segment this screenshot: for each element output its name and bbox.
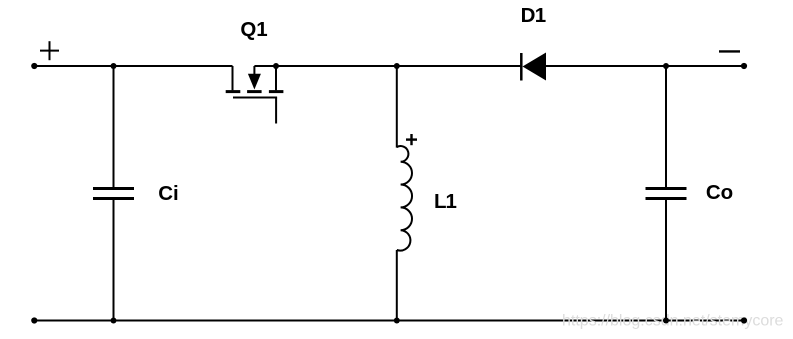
junction node top of Ci <box>111 63 117 69</box>
junction node top of Co <box>663 63 669 69</box>
junction node bottom of Co <box>663 318 669 324</box>
polarity + of L1 <box>406 134 417 145</box>
polarity - output <box>719 50 740 52</box>
polarity + input <box>40 41 59 60</box>
junction node bottom of L1 <box>394 318 400 324</box>
wire middle branch upper (top rail to L1) <box>396 66 398 148</box>
svg-text:L1: L1 <box>434 190 457 213</box>
terminal dot top-left <box>31 63 37 69</box>
wire top segment from D1 anode to - terminal <box>546 65 744 67</box>
wire left branch lower (Ci to bottom rail) <box>113 199 115 321</box>
wire bottom rail <box>34 320 744 322</box>
wire top segment from Q1 source to D1 cathode <box>254 65 520 67</box>
svg-text:Co: Co <box>706 181 733 204</box>
wire middle branch lower (L1 to bottom rail) <box>396 250 398 321</box>
wire right branch upper (top rail to Co) <box>665 66 667 188</box>
svg-text:https://blog.csdn.net/stemycor: https://blog.csdn.net/stemycore <box>562 313 784 330</box>
svg-text:Q1: Q1 <box>240 18 267 41</box>
junction node bottom of Ci <box>111 318 117 324</box>
terminal dot bottom-left <box>31 317 37 323</box>
wire top segment from + terminal to Q1 drain <box>34 65 232 67</box>
wire right branch lower (Co to bottom rail) <box>665 199 667 321</box>
junction node top of L1 <box>394 63 400 69</box>
diode D1 <box>521 53 546 81</box>
svg-text:Ci: Ci <box>158 182 179 205</box>
transistor Q1 (MOSFET) <box>226 66 284 124</box>
junction node Q1 source <box>273 63 279 69</box>
capacitor Ci <box>93 189 134 199</box>
inductor L1 <box>397 146 412 250</box>
svg-text:D1: D1 <box>521 4 546 27</box>
terminal dot bottom-right <box>741 317 747 323</box>
wire left branch upper (top rail to Ci) <box>113 66 115 188</box>
terminal dot top-right <box>741 63 747 69</box>
capacitor Co <box>646 189 687 199</box>
